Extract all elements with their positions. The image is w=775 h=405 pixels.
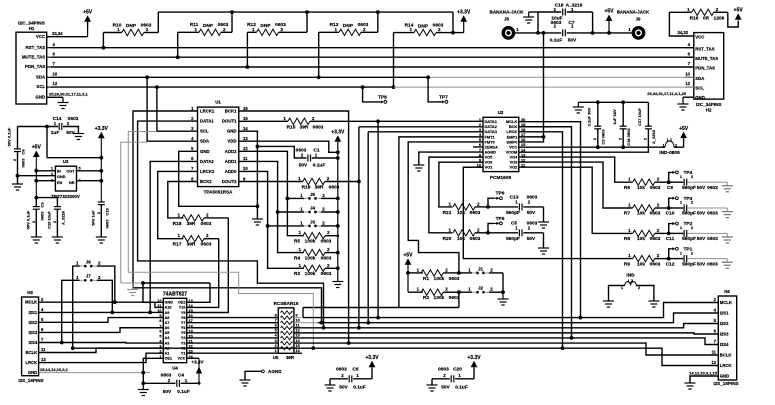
svg-text:16: 16 bbox=[296, 349, 300, 353]
junction 3.3V node to C14 bbox=[99, 156, 103, 160]
wire U3 GND to ground bbox=[18, 175, 56, 177]
wire I2S bus row15 LRCK bbox=[73, 348, 719, 365]
junction U3 EN bbox=[34, 179, 38, 183]
svg-text:U4: U4 bbox=[172, 366, 178, 371]
svg-text:0603: 0603 bbox=[321, 271, 332, 277]
svg-text:0603: 0603 bbox=[707, 236, 718, 242]
resistor R1 100k 0603 bbox=[408, 272, 423, 274]
svg-text:RST_TAS: RST_TAS bbox=[695, 46, 714, 51]
junction R13-SDA bbox=[317, 75, 321, 79]
svg-text:R9: R9 bbox=[624, 261, 630, 267]
svg-text:LRCK: LRCK bbox=[26, 360, 38, 365]
svg-text:R6: R6 bbox=[624, 185, 630, 191]
wire U5 pin9 stub bbox=[294, 317, 301, 319]
ground C8 bbox=[12, 183, 23, 185]
svg-text:A3: A3 bbox=[165, 341, 170, 345]
wire U2 output to R7 bbox=[519, 162, 633, 208]
wire U3 NR bbox=[77, 180, 102, 182]
wire U1 GND pin5 bbox=[179, 151, 258, 206]
wire I2S bus row10 bbox=[318, 313, 719, 323]
capacitor C6 0.1uF 50V with +3.3V bbox=[330, 378, 348, 380]
svg-text:LRCK2: LRCK2 bbox=[200, 169, 215, 174]
svg-text:R2: R2 bbox=[423, 295, 429, 301]
svg-text:A1: A1 bbox=[165, 352, 170, 356]
junction J2 ground node bbox=[501, 290, 505, 294]
svg-text:VCC: VCC bbox=[177, 357, 185, 361]
svg-text:0603: 0603 bbox=[707, 261, 718, 267]
svg-text:I2S2: I2S2 bbox=[29, 320, 38, 325]
svg-text:13: 13 bbox=[296, 334, 300, 338]
svg-text:MUTE_TAS: MUTE_TAS bbox=[22, 54, 45, 59]
junction rail C1 bbox=[336, 156, 340, 160]
capacitor C11 560pF 50V 0603 bbox=[669, 232, 684, 234]
svg-text:LRCK: LRCK bbox=[720, 363, 732, 368]
junction R13 top rail bbox=[376, 10, 380, 14]
svg-text:0603: 0603 bbox=[313, 124, 324, 130]
test point TP7 bbox=[426, 75, 430, 79]
svg-text:DNP: DNP bbox=[418, 23, 429, 29]
svg-text:C9: C9 bbox=[667, 185, 673, 191]
svg-text:BCK1: BCK1 bbox=[225, 109, 237, 114]
node AGND bbox=[262, 370, 265, 373]
svg-text:A_3216: A_3216 bbox=[61, 210, 66, 225]
svg-text:IN: IN bbox=[57, 169, 61, 173]
svg-text:0.1uF: 0.1uF bbox=[177, 389, 190, 395]
wire to C1 bbox=[257, 146, 306, 158]
jumper J1 bbox=[472, 272, 476, 274]
resistor R6 10k 0603 bbox=[633, 179, 655, 185]
capacitor C10 560pF 50V 0603 bbox=[669, 207, 684, 209]
wire jack J8 to C7 bbox=[515, 32, 562, 34]
svg-text:A9: A9 bbox=[165, 311, 170, 315]
svg-text:0603: 0603 bbox=[650, 236, 661, 242]
wire U1 ADD0 bbox=[239, 171, 304, 268]
ground C11 bbox=[726, 233, 728, 237]
svg-text:A_3216: A_3216 bbox=[651, 129, 656, 144]
wire U4 VCC +3.3V bbox=[187, 357, 199, 359]
svg-text:39R: 39R bbox=[187, 242, 196, 248]
svg-text:13: 13 bbox=[189, 299, 193, 303]
svg-text:0603: 0603 bbox=[40, 211, 45, 221]
capacitor C7 0.1uF 50V 0603 bbox=[562, 29, 564, 36]
svg-text:0603: 0603 bbox=[218, 22, 229, 28]
junction R14-SCL bbox=[392, 85, 396, 89]
svg-text:C20: C20 bbox=[453, 366, 462, 372]
svg-text:GND: GND bbox=[28, 370, 37, 375]
junction U4 gnd bbox=[141, 281, 145, 285]
svg-text:U1: U1 bbox=[215, 100, 221, 105]
connector H1 I2C_34PINS bbox=[16, 32, 47, 104]
svg-text:100k: 100k bbox=[434, 276, 445, 282]
svg-text:0603: 0603 bbox=[141, 22, 152, 28]
wire H3 GND row bbox=[39, 372, 150, 374]
junction C18 right bbox=[591, 31, 595, 35]
svg-text:3: 3 bbox=[51, 172, 53, 176]
jumper J5 bbox=[304, 197, 308, 199]
test point TP5 bbox=[488, 223, 494, 232]
svg-text:DATA2: DATA2 bbox=[200, 159, 214, 164]
svg-text:15: 15 bbox=[243, 116, 248, 121]
junction U3 IN bbox=[34, 169, 38, 173]
op-amp U1 TPA5051RSA bbox=[198, 107, 239, 187]
svg-text:2: 2 bbox=[51, 178, 53, 182]
svg-text:R13: R13 bbox=[330, 22, 339, 28]
svg-text:+5V: +5V bbox=[403, 252, 413, 258]
svg-text:R7: R7 bbox=[624, 211, 630, 217]
test point TP3 bbox=[669, 198, 671, 208]
junction R11-MUTE_TAS bbox=[176, 55, 180, 59]
junction TP2 node bbox=[667, 232, 671, 236]
svg-text:15,14,12,10,3,1: 15,14,12,10,3,1 bbox=[40, 367, 69, 372]
svg-text:DOUT1: DOUT1 bbox=[222, 119, 237, 124]
svg-text:NR: NR bbox=[69, 181, 75, 185]
svg-text:0603: 0603 bbox=[707, 185, 718, 191]
svg-text:PDN_TAS: PDN_TAS bbox=[25, 64, 45, 69]
wire SDA tap to U1 pin4 bbox=[147, 77, 197, 141]
resistor R18 39R 0603 bbox=[182, 215, 204, 221]
svg-text:PDN_TAS: PDN_TAS bbox=[695, 66, 715, 71]
svg-text:1: 1 bbox=[51, 167, 53, 171]
svg-text:ADD1: ADD1 bbox=[225, 159, 237, 164]
wire U1 DATA2 column bbox=[150, 161, 197, 312]
resistor R5 100k 0603 bbox=[303, 233, 325, 239]
test point TP1 bbox=[669, 249, 671, 259]
svg-text:0603: 0603 bbox=[321, 256, 332, 262]
junction R14 +3.3V bbox=[451, 31, 455, 35]
capacitor C15 1uF 50V 0603 bbox=[98, 201, 105, 203]
svg-text:10k: 10k bbox=[637, 211, 645, 217]
svg-text:50V: 50V bbox=[527, 210, 536, 216]
resistor R12 DNP 0603 bbox=[257, 29, 279, 35]
svg-text:R15: R15 bbox=[287, 124, 296, 130]
svg-text:50V: 50V bbox=[163, 389, 172, 395]
svg-text:Y3: Y3 bbox=[181, 341, 186, 345]
svg-text:0603: 0603 bbox=[470, 210, 481, 216]
junction R11 top rail bbox=[230, 10, 234, 14]
buffer U4 74ABT827 bbox=[163, 298, 186, 362]
svg-text:14: 14 bbox=[243, 126, 248, 131]
wire U2 ZERDA stub bbox=[473, 146, 483, 148]
wire U1 BCK2 to R18 bbox=[168, 182, 198, 218]
svg-text:0603: 0603 bbox=[105, 219, 110, 229]
svg-text:AGND: AGND bbox=[268, 369, 282, 374]
svg-text:VO2: VO2 bbox=[510, 165, 519, 170]
svg-text:5: 5 bbox=[79, 167, 81, 171]
svg-text:R3: R3 bbox=[294, 271, 300, 277]
ground J1 J2 bbox=[502, 292, 504, 299]
svg-text:1206: 1206 bbox=[714, 16, 725, 22]
svg-text:BANANA-JACK: BANANA-JACK bbox=[490, 10, 525, 15]
svg-text:H2: H2 bbox=[706, 108, 712, 113]
svg-text:J8: J8 bbox=[504, 17, 509, 22]
power +3.3V rail mid bbox=[334, 135, 341, 142]
svg-text:50V: 50V bbox=[66, 130, 75, 136]
resistor R19 39R 0603 on DOUT2 bbox=[239, 181, 303, 183]
svg-text:GND: GND bbox=[57, 175, 66, 179]
svg-text:I2S1: I2S1 bbox=[29, 310, 38, 315]
svg-text:0603: 0603 bbox=[358, 22, 369, 28]
svg-text:560pF: 560pF bbox=[682, 261, 696, 267]
svg-text:MCLK: MCLK bbox=[720, 300, 732, 305]
svg-text:560pF: 560pF bbox=[506, 210, 520, 216]
svg-text:13: 13 bbox=[711, 360, 716, 365]
svg-text:15: 15 bbox=[296, 344, 300, 348]
wire U1 VDD to +3.3V rail bbox=[239, 141, 338, 152]
svg-text:10k: 10k bbox=[637, 236, 645, 242]
svg-text:12: 12 bbox=[685, 81, 690, 86]
svg-text:SCL: SCL bbox=[36, 84, 45, 89]
svg-text:15: 15 bbox=[189, 309, 193, 313]
junction TP3 node bbox=[667, 206, 671, 210]
svg-text:IND: IND bbox=[626, 272, 635, 278]
ground at rail bottom bbox=[332, 281, 343, 283]
svg-text:12: 12 bbox=[53, 81, 58, 86]
wire C14 column bbox=[46, 127, 48, 158]
wire SCL bus bbox=[51, 86, 394, 88]
ground C3 bbox=[31, 236, 42, 238]
resistor R14 DNP 0603 bbox=[414, 29, 436, 35]
svg-text:0603: 0603 bbox=[201, 221, 212, 227]
svg-text:C16 0803: C16 0803 bbox=[626, 128, 631, 146]
wire DOUT2 column to U2 DATA2 and bus bbox=[358, 127, 360, 328]
svg-text:C15: C15 bbox=[105, 208, 110, 216]
svg-text:39R: 39R bbox=[300, 124, 309, 130]
svg-text:+5V: +5V bbox=[604, 9, 614, 15]
svg-text:A10: A10 bbox=[165, 306, 172, 310]
svg-text:12: 12 bbox=[157, 299, 161, 303]
svg-text:EN: EN bbox=[57, 181, 63, 185]
svg-text:ADD2: ADD2 bbox=[225, 149, 237, 154]
svg-text:16: 16 bbox=[243, 106, 248, 111]
svg-text:H1: H1 bbox=[29, 26, 35, 31]
svg-text:C11: C11 bbox=[666, 236, 675, 242]
wire MUTE_TAS bus bbox=[51, 56, 694, 58]
svg-text:C3: C3 bbox=[40, 202, 45, 208]
svg-text:Y10: Y10 bbox=[179, 306, 186, 310]
resistor R15 39R 0603 on DOUT1 bbox=[239, 120, 288, 122]
resistor R13 DNP 0603 bbox=[339, 29, 361, 35]
wire U1 ADD2 bbox=[239, 151, 304, 235]
wire H3 I2S3 to U4 bbox=[39, 328, 164, 333]
junction TP6 node bbox=[486, 205, 490, 209]
svg-text:0.1uF 50V: 0.1uF 50V bbox=[587, 107, 592, 126]
junction +5V riser bbox=[607, 31, 611, 35]
svg-text:R10: R10 bbox=[113, 22, 122, 28]
ground L2 left bbox=[609, 286, 625, 302]
svg-text:OE2: OE2 bbox=[178, 301, 186, 305]
svg-text:Y8: Y8 bbox=[181, 316, 186, 320]
capacitor C20 0.1uF 50V with +3.3V bbox=[432, 378, 450, 380]
svg-text:R18: R18 bbox=[173, 221, 182, 227]
wire U4 Y outputs to resistor network bbox=[187, 317, 279, 319]
svg-text:SDA: SDA bbox=[200, 139, 209, 144]
ground C14 bbox=[73, 133, 84, 135]
svg-text:TP5: TP5 bbox=[496, 216, 505, 222]
power +3.3V top right bbox=[460, 15, 467, 22]
wire I2S bus row11 bbox=[294, 324, 718, 328]
junction DOUT2 column bbox=[357, 180, 361, 184]
svg-text:C7: C7 bbox=[568, 20, 574, 26]
wire U2 LRCK column bbox=[519, 132, 563, 348]
svg-text:R14: R14 bbox=[405, 22, 414, 28]
svg-text:10k: 10k bbox=[637, 185, 645, 191]
svg-text:R5: R5 bbox=[294, 239, 300, 245]
svg-text:R4: R4 bbox=[294, 256, 300, 262]
svg-text:U2: U2 bbox=[498, 110, 504, 115]
jumper J3 bbox=[304, 225, 308, 227]
resistor R17 39R 0603 bbox=[182, 236, 204, 242]
svg-text:0R: 0R bbox=[703, 16, 710, 22]
ground H4 GND bbox=[690, 376, 718, 383]
svg-text:0603: 0603 bbox=[201, 242, 212, 248]
svg-text:R17: R17 bbox=[173, 242, 182, 248]
svg-text:34,33: 34,33 bbox=[678, 30, 689, 35]
capacitor C16 1uF 16V 0603 bbox=[622, 102, 624, 126]
svg-text:12: 12 bbox=[296, 329, 300, 333]
svg-text:0.1uF: 0.1uF bbox=[455, 384, 468, 390]
svg-text:J5: J5 bbox=[310, 192, 316, 197]
svg-text:0603: 0603 bbox=[449, 295, 460, 301]
svg-text:BANANA-JACK: BANANA-JACK bbox=[617, 10, 650, 15]
svg-text:A6: A6 bbox=[165, 326, 170, 330]
junction R10-RST_TAS bbox=[102, 46, 106, 50]
svg-text:50V: 50V bbox=[697, 185, 706, 191]
svg-text:0603: 0603 bbox=[527, 220, 538, 226]
svg-text:39R: 39R bbox=[187, 221, 196, 227]
svg-text:J7: J7 bbox=[86, 274, 92, 279]
resistor R3 100k 0603 bbox=[303, 265, 325, 271]
svg-text:C10: C10 bbox=[666, 211, 675, 217]
svg-text:9: 9 bbox=[296, 313, 298, 317]
svg-text:J2: J2 bbox=[478, 286, 484, 291]
svg-text:0603: 0603 bbox=[329, 185, 340, 191]
svg-text:+5V: +5V bbox=[679, 126, 689, 132]
ground C10 bbox=[726, 208, 728, 212]
svg-text:Y9: Y9 bbox=[181, 311, 186, 315]
svg-text:0603: 0603 bbox=[336, 366, 347, 372]
wire FMT net riser bbox=[302, 308, 304, 318]
svg-text:TP7: TP7 bbox=[439, 95, 448, 101]
junction J7 I2S4 bbox=[60, 341, 64, 345]
wire U1 ADD1 bbox=[239, 161, 304, 252]
wire U4 OE1 to C4 bbox=[143, 358, 163, 383]
junction C4 left bbox=[141, 381, 145, 385]
svg-text:13: 13 bbox=[243, 136, 248, 141]
wire C3 C19 branch bbox=[36, 198, 57, 207]
capacitor C12 560pF 50V 0603 bbox=[669, 258, 684, 260]
svg-text:TPA5051RSA: TPA5051RSA bbox=[204, 190, 233, 195]
svg-text:Y7: Y7 bbox=[181, 321, 186, 325]
svg-text:+3.3V: +3.3V bbox=[191, 360, 204, 365]
junction SDA to U1 bbox=[145, 75, 149, 79]
svg-text:I2S_16PINS: I2S_16PINS bbox=[713, 381, 738, 386]
wire H3 I2S2 to U4 bbox=[39, 318, 164, 323]
resistor R8 10k 0603 bbox=[633, 230, 655, 236]
wire U2 FMT0 bbox=[408, 142, 483, 273]
svg-text:I2S4: I2S4 bbox=[720, 342, 729, 347]
junction C14 column bbox=[45, 125, 49, 129]
svg-text:1: 1 bbox=[275, 349, 277, 353]
junction gnd row bbox=[141, 371, 145, 375]
wire U1 BCK1 long column bbox=[239, 111, 349, 343]
junction DATA2 tap bbox=[148, 311, 152, 315]
test point TP4 bbox=[669, 172, 671, 182]
svg-text:C6: C6 bbox=[352, 366, 358, 372]
svg-text:GND: GND bbox=[200, 149, 210, 154]
ground U4 OE bbox=[132, 283, 134, 290]
svg-text:11: 11 bbox=[243, 156, 248, 161]
svg-text:R20: R20 bbox=[443, 236, 452, 242]
ground C6 bbox=[329, 379, 331, 385]
junction TP4 node bbox=[667, 180, 671, 184]
wire U2 BCK column bbox=[519, 127, 572, 338]
jumper J6 bbox=[80, 265, 84, 267]
wire C8 branch bbox=[17, 127, 19, 149]
resistor R7 10k 0603 bbox=[633, 205, 655, 211]
svg-text:8: 8 bbox=[275, 313, 277, 317]
ground H1 GND pin bbox=[47, 96, 63, 98]
resistor R4 100k 0603 bbox=[303, 249, 325, 255]
svg-text:+5V: +5V bbox=[83, 9, 93, 15]
svg-text:J1: J1 bbox=[478, 266, 484, 271]
capacitor C13 560pF 50V bbox=[488, 206, 518, 208]
ground C9 bbox=[726, 182, 728, 186]
svg-text:VDD: VDD bbox=[227, 139, 236, 144]
svg-text:OE1: OE1 bbox=[165, 357, 173, 361]
wire DATA3 column bbox=[367, 132, 369, 323]
svg-text:I2S2: I2S2 bbox=[720, 321, 729, 326]
svg-text:BCLK: BCLK bbox=[720, 353, 732, 358]
wire U2 VO5 to R20 bbox=[429, 157, 483, 233]
svg-text:11: 11 bbox=[296, 323, 300, 327]
capacitor C3 0.1uF 50V 0603 bbox=[33, 206, 40, 208]
svg-text:DNP: DNP bbox=[126, 23, 137, 29]
wire I2S bus MCLK row9 bbox=[303, 303, 718, 318]
svg-text:11: 11 bbox=[41, 347, 46, 352]
svg-text:TP6: TP6 bbox=[496, 191, 505, 197]
svg-text:Y6: Y6 bbox=[181, 326, 186, 330]
resistor R21 10k 0603 bbox=[453, 204, 475, 210]
wire U5 pin16 stub bbox=[294, 352, 302, 354]
ground C12 bbox=[726, 259, 728, 263]
svg-text:100k: 100k bbox=[434, 295, 445, 301]
svg-text:VCC: VCC bbox=[695, 35, 704, 40]
junction TP1 node bbox=[667, 257, 671, 261]
svg-text:0603: 0603 bbox=[650, 261, 661, 267]
svg-text:74ABT827: 74ABT827 bbox=[163, 292, 187, 298]
power +3.3V at C14 bbox=[98, 132, 105, 139]
svg-text:I2S3: I2S3 bbox=[29, 330, 38, 335]
capacitor C9 560pF 50V 0603 bbox=[669, 181, 684, 183]
junction C8 gnd row bbox=[16, 174, 20, 178]
svg-text:0603: 0603 bbox=[650, 185, 661, 191]
svg-text:RST_TAS: RST_TAS bbox=[26, 45, 46, 50]
capacitor C18 10uF A_3216 bbox=[537, 12, 539, 33]
junction C3 branch bbox=[34, 196, 38, 200]
svg-text:50V: 50V bbox=[299, 163, 308, 169]
junction vertical to U2 EMP bbox=[542, 31, 546, 35]
power +5V at L1 bbox=[680, 132, 687, 139]
resistor R2 100k 0603 bbox=[408, 291, 423, 293]
capacitor block top rail with ground bbox=[578, 101, 648, 103]
svg-text:26,32,31,17,11,3,1,25: 26,32,31,17,11,3,1,25 bbox=[647, 91, 686, 96]
svg-text:0603: 0603 bbox=[527, 195, 538, 201]
ground U2 AGND bbox=[419, 152, 483, 165]
svg-text:A_3216: A_3216 bbox=[566, 3, 583, 9]
svg-text:5: 5 bbox=[159, 334, 161, 338]
svg-text:100k: 100k bbox=[305, 271, 316, 277]
svg-text:DNP: DNP bbox=[203, 23, 214, 29]
